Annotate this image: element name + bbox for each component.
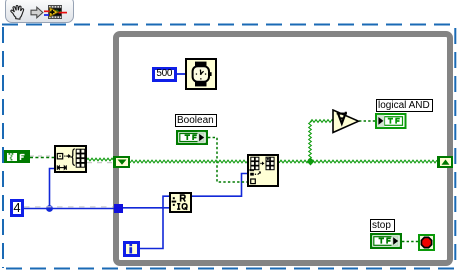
- iteration terminal i: [123, 241, 140, 257]
- stop control terminal TF: [370, 233, 402, 249]
- VI run icon (film strip with play triangle): [44, 4, 67, 20]
- junction dot on 4-wire: [46, 205, 53, 212]
- marquee top edge: [2, 24, 456, 26]
- Boolean control terminal TF: [176, 130, 208, 145]
- marquee right edge: [454, 28, 456, 268]
- wire: tunnel to Quotient&Remainder y input (blue): [123, 207, 169, 209]
- wire: constant 4 to loop tunnel (blue, selected with gray ants): [24, 207, 114, 209]
- crown: [209, 72, 211, 76]
- And Array Elements node (triangle): [332, 109, 360, 134]
- Replace Array Subset node: [247, 154, 279, 187]
- loop condition terminal (stop sign): [418, 234, 435, 251]
- hands: [200, 70, 203, 74]
- element marker: [250, 172, 254, 175]
- wire: horizontal zigzag into And Array Elements: [310, 120, 333, 123]
- wire: boolean constant F to Initialize Array (green dotted, selected): [30, 156, 54, 158]
- small arrow: [66, 155, 69, 157]
- tools palette toolbar fragment: [5, 0, 74, 23]
- wire: constant 500 to Wait ms (blue): [176, 73, 185, 75]
- logical AND label: [376, 99, 433, 112]
- junction diamond on boolean array wire: [307, 158, 315, 166]
- right array grid with marked cell: [266, 157, 274, 170]
- wire: numeric constant 4 branch up to Initialize Array dimension input (blue): [50, 169, 55, 209]
- middle arrow: [260, 162, 261, 163]
- IQ: [177, 204, 187, 210]
- left array grid: [251, 157, 259, 170]
- wire: Initialize Array output to left shift register (green zigzag boolean array, selected): [86, 158, 114, 162]
- watch face: [193, 66, 209, 82]
- wire: branch up to And Array Elements (green zigzag vertical): [309, 121, 312, 162]
- blue tunnel on left loop border: [114, 204, 124, 214]
- marquee bottom edge: [6, 268, 456, 270]
- stop label: [370, 219, 395, 232]
- wire: stop control to loop condition terminal (green dotted): [402, 241, 418, 243]
- wire: left shift register to Replace Array Subset (green zigzag boolean array): [130, 160, 247, 163]
- wire: Boolean control to Replace Array Subset element input (green dotted): [208, 138, 247, 183]
- Wait (ms) node: [185, 58, 217, 90]
- R: [181, 195, 186, 202]
- boolean constant F: [4, 150, 30, 163]
- hand tool icon: [9, 4, 26, 21]
- Boolean label: [175, 114, 217, 127]
- wire: Q&R remainder output to Replace Array Subset index input (blue): [192, 174, 247, 197]
- wire: Replace Array Subset to right shift register (green zigzag boolean array): [279, 160, 437, 163]
- bottom empty square: [251, 179, 256, 184]
- left shift register (down arrow): [113, 156, 130, 169]
- numeric constant 4: [10, 199, 24, 217]
- Initialize Array node: [54, 145, 87, 173]
- Quotient & Remainder node: [169, 192, 192, 213]
- arrow tool icon: [30, 6, 44, 19]
- numeric constant 500: [152, 67, 177, 82]
- watch straps: [195, 62, 207, 68]
- element square with dot: [57, 154, 62, 159]
- logical AND indicator TF: [375, 113, 407, 129]
- wire: And Array Elements output to logical AND indicator (green dotted): [359, 120, 375, 122]
- curly brace: [72, 149, 75, 166]
- dimension symbol: [57, 165, 66, 170]
- right shift register (up arrow): [437, 156, 453, 169]
- marquee left edge: [2, 27, 4, 268]
- while loop structure frame: [113, 31, 453, 266]
- array grid 2x4: [76, 149, 85, 167]
- wire: iteration terminal i to Quotient&Remainder x input (blue): [140, 196, 169, 248]
